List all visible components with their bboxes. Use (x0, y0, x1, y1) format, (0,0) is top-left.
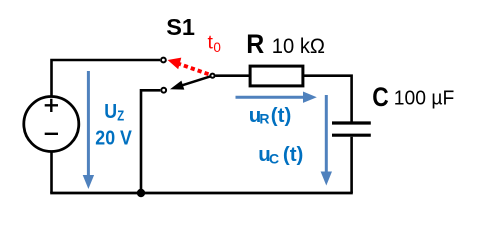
capacitor C (332, 123, 371, 135)
svg-text:Z: Z (117, 107, 124, 124)
label uR(t) (249, 104, 291, 127)
current/voltage arrow uR (blue, rightward) (236, 92, 317, 103)
wire: resistor R to capacitor C (304, 76, 352, 122)
svg-text:C: C (269, 151, 279, 167)
switch S1 top contact (161, 58, 166, 63)
switch S1 (161, 58, 215, 93)
wire: source bottom to bottom rail (50, 152, 53, 194)
switch S1 arm with arrowhead toward lower contact (181, 76, 210, 85)
voltage source UZ (24, 97, 79, 152)
voltage arrow UZ (blue, downward) (83, 71, 94, 189)
svg-text:U: U (104, 100, 117, 123)
resistor R (250, 66, 303, 86)
svg-text:100 µF: 100 µF (394, 87, 455, 109)
svg-text:C: C (372, 82, 389, 112)
wire: capacitor C bottom to bottom rail (350, 137, 353, 193)
svg-text:R: R (246, 29, 264, 59)
switch S1 lower contact (161, 88, 166, 93)
svg-text:10 kΩ: 10 kΩ (272, 35, 325, 58)
label uC(t) (258, 143, 303, 167)
wire: switch pivot to resistor R (216, 74, 250, 77)
svg-text:(t): (t) (283, 143, 303, 166)
wire top: source top to switch S1 top contact (52, 60, 161, 97)
svg-text:20 V: 20 V (95, 127, 132, 150)
red t0 switching arrow (dashed) (168, 58, 209, 75)
svg-text:R: R (259, 110, 269, 126)
svg-text:S1: S1 (166, 14, 195, 40)
wire bottom rail (50, 192, 353, 195)
node junction: bottom rail / switch branch (137, 189, 145, 197)
svg-text:(t): (t) (271, 104, 291, 127)
voltage arrow uC (blue, downward) (321, 95, 332, 186)
wire: junction up to switch S1 lower contact (141, 90, 160, 193)
switch S1 pivot contact (210, 74, 214, 78)
